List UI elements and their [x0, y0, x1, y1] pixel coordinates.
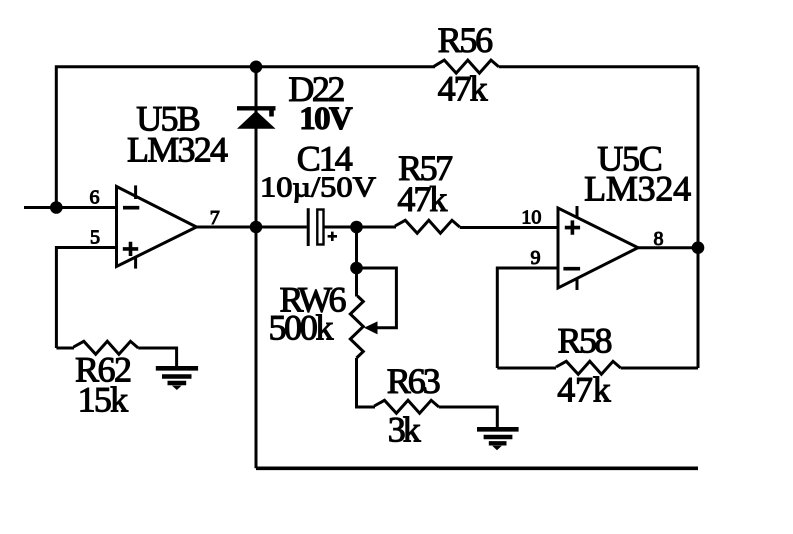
wire: bottom rail [256, 466, 698, 470]
wire: pin 9 input wire [497, 268, 558, 368]
wire: U5C output to right vertical [638, 246, 698, 249]
capacitor C14 [308, 208, 337, 246]
wire: wiper loop (right and down to wiper) [357, 268, 397, 328]
wire: D22 branch vertical top [255, 67, 258, 112]
junction dot node 7 [250, 221, 263, 234]
wire: right vertical from top rail down through output node to R58 row [697, 67, 700, 368]
svg-text:47k: 47k [397, 179, 447, 219]
op-amp U5C [558, 206, 638, 290]
pin 8 label [654, 228, 664, 250]
svg-text:500k: 500k [269, 308, 334, 348]
junction dot on top rail above D22 [250, 61, 263, 74]
resistor R63 [374, 361, 441, 450]
svg-text:6: 6 [90, 187, 100, 209]
svg-text:15k: 15k [78, 379, 128, 419]
svg-text:7: 7 [210, 207, 220, 229]
label D22 10V [288, 69, 353, 137]
pin 6 label [90, 187, 100, 209]
svg-text:8: 8 [654, 228, 664, 250]
svg-text:LM324: LM324 [584, 169, 691, 209]
wire: R57 to U5C pin 10 [460, 226, 558, 229]
label C14 10u/50V [260, 139, 376, 204]
wire: pot bottom to R63 row [357, 358, 376, 407]
svg-text:R58: R58 [558, 320, 613, 360]
wire: R58 to right vertical [621, 367, 698, 370]
svg-text:47k: 47k [438, 69, 488, 109]
resistor R57 [395, 148, 460, 233]
pin 7 label [210, 207, 220, 229]
wiper arrow of RW6 [364, 321, 378, 334]
wire: R62 row corner to zigzag [56, 347, 74, 350]
wire: U5B output to node 7 [197, 226, 257, 229]
pin 9 label [531, 247, 541, 269]
wire: R57 row [357, 226, 397, 229]
svg-text:R63: R63 [387, 361, 441, 401]
wire: R62 to ground drop [138, 348, 176, 367]
wire: vertical from D22 through node 7 down to bottom rail [255, 128, 258, 468]
svg-text:10µ/50V: 10µ/50V [260, 172, 376, 204]
junction dot U5C output node [692, 241, 705, 254]
wire: node 7 to C14 [256, 226, 307, 229]
op-amp U5B [117, 185, 197, 268]
svg-text:9: 9 [531, 247, 541, 269]
svg-text:3k: 3k [388, 410, 421, 450]
wire: R58 row left segment [497, 367, 556, 370]
wire: pin 5 input wire [56, 248, 116, 349]
junction dot on input wire at left feedback corner [50, 201, 63, 214]
resistor R58 [556, 320, 621, 409]
ground symbol at R62 [156, 368, 198, 390]
svg-text:5: 5 [90, 227, 100, 249]
pin 10 label [521, 207, 541, 229]
svg-text:10: 10 [521, 207, 541, 229]
junction dot after C14 [350, 221, 363, 234]
resistor R62 [74, 341, 139, 419]
potentiometer RW6 [269, 268, 364, 358]
wire: top feedback rail left segment with left vertical drop [56, 67, 435, 208]
ground symbol at R63 [477, 429, 519, 450]
wire: R63 to ground drop [439, 407, 497, 428]
svg-text:47k: 47k [557, 369, 611, 409]
junction dot at RW6 top branch [350, 262, 363, 275]
wire: C14 to junction [325, 226, 357, 229]
wire: input stub to pin 6 [24, 206, 116, 209]
wire: top feedback rail right segment [499, 65, 698, 68]
label U5C [584, 139, 691, 209]
pin 5 label [90, 227, 100, 249]
zener diode D22 [237, 108, 276, 128]
label U5B [127, 99, 228, 170]
resistor R56 [434, 20, 499, 109]
svg-text:LM324: LM324 [127, 129, 228, 169]
svg-text:R56: R56 [438, 20, 494, 60]
wire: junction to RW6 branch vertical [355, 227, 358, 268]
svg-text:10V: 10V [299, 101, 353, 137]
